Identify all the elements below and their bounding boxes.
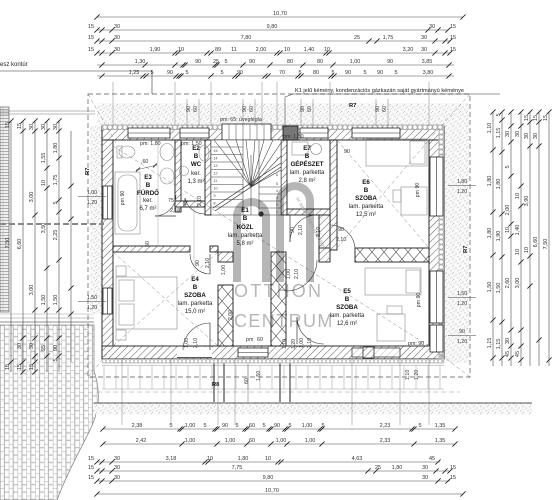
svg-text:B: B xyxy=(364,187,369,194)
dashed diagonals E4 xyxy=(113,252,218,346)
svg-text:10: 10 xyxy=(284,47,290,53)
insulation circle band bottom wall xyxy=(102,359,444,364)
svg-text:11: 11 xyxy=(214,179,218,183)
svg-text:B: B xyxy=(193,284,198,291)
dimension chain y=429 xyxy=(100,423,457,431)
svg-text:1,50: 1,50 xyxy=(87,295,97,301)
svg-text:6,60: 6,60 xyxy=(17,239,23,250)
interior extension lines xyxy=(157,140,159,246)
svg-text:1,20: 1,20 xyxy=(87,305,97,311)
bathtub xyxy=(115,172,140,234)
svg-text:1,00: 1,00 xyxy=(299,338,305,348)
svg-text:3,20: 3,20 xyxy=(403,47,414,53)
svg-text:1,80: 1,80 xyxy=(53,143,59,154)
svg-text:5: 5 xyxy=(394,70,397,76)
svg-text:E1: E1 xyxy=(241,207,249,214)
wall gepeszet bottom xyxy=(287,209,337,215)
svg-text:1,20: 1,20 xyxy=(414,370,420,380)
svg-text:1,15: 1,15 xyxy=(487,338,493,349)
room label KÖZL xyxy=(228,207,263,247)
svg-text:12,6 m²: 12,6 m² xyxy=(337,321,357,327)
svg-text:1,80: 1,80 xyxy=(487,176,493,187)
svg-text:1,40: 1,40 xyxy=(515,225,521,236)
svg-text:2,42: 2,42 xyxy=(136,438,147,444)
svg-text:15: 15 xyxy=(88,24,94,30)
svg-text:90: 90 xyxy=(274,423,280,429)
bed E5 xyxy=(365,268,421,295)
svg-text:75: 75 xyxy=(168,198,174,204)
svg-text:90: 90 xyxy=(459,329,465,335)
svg-text:15: 15 xyxy=(533,115,539,121)
svg-text:7: 7 xyxy=(276,157,278,161)
svg-text:90: 90 xyxy=(344,149,350,155)
svg-text:30: 30 xyxy=(505,338,511,344)
svg-text:2,38: 2,38 xyxy=(132,423,143,429)
dimension chain x=530 xyxy=(524,109,532,366)
top-left small lines xyxy=(0,110,95,112)
svg-text:9: 9 xyxy=(214,194,216,198)
svg-text:90: 90 xyxy=(338,227,344,233)
wall kozl/E4 right xyxy=(210,246,218,252)
svg-text:30: 30 xyxy=(114,475,120,481)
room label SZOBA xyxy=(330,288,365,327)
dimension chain x=502 xyxy=(496,109,504,366)
svg-text:2,10: 2,10 xyxy=(316,227,322,237)
window top E6 xyxy=(352,128,400,138)
svg-text:10: 10 xyxy=(41,180,47,186)
svg-text:4: 4 xyxy=(276,189,278,193)
door E5 top xyxy=(286,260,317,291)
svg-text:5: 5 xyxy=(505,165,511,168)
svg-text:60: 60 xyxy=(249,106,255,112)
svg-text:1,00: 1,00 xyxy=(221,265,227,275)
svg-text:OTTHON: OTTHON xyxy=(234,281,323,301)
svg-text:15: 15 xyxy=(450,24,456,30)
svg-text:1,50: 1,50 xyxy=(457,291,467,297)
dimension chain y=462 xyxy=(88,456,441,464)
dashed lower line xyxy=(97,391,460,393)
svg-text:15,0 m²: 15,0 m² xyxy=(185,309,205,315)
dimension chain x=23 xyxy=(17,118,25,374)
svg-text:1,20: 1,20 xyxy=(87,200,97,206)
svg-text:1,00: 1,00 xyxy=(87,190,97,196)
svg-text:4,63: 4,63 xyxy=(352,456,363,462)
wall stair/gepeszet xyxy=(281,140,287,215)
desk E6 xyxy=(401,187,427,215)
svg-text:15: 15 xyxy=(543,115,549,121)
svg-text:6,7 m²: 6,7 m² xyxy=(139,206,156,212)
svg-text:2,23: 2,23 xyxy=(380,423,391,429)
svg-text:5,8 m²: 5,8 m² xyxy=(236,241,253,247)
svg-text:10,70: 10,70 xyxy=(265,488,279,494)
svg-text:1,00: 1,00 xyxy=(184,338,190,348)
svg-text:1,75: 1,75 xyxy=(383,35,394,41)
svg-text:5: 5 xyxy=(418,423,421,429)
svg-text:1,40: 1,40 xyxy=(304,47,315,53)
door E6 xyxy=(330,225,355,250)
svg-text:2,8 m²: 2,8 m² xyxy=(298,178,315,184)
door E4 bottom xyxy=(183,323,210,350)
svg-text:14: 14 xyxy=(214,157,218,161)
dimension chain x=71 xyxy=(68,131,73,362)
svg-text:12: 12 xyxy=(214,172,218,176)
svg-text:1,80: 1,80 xyxy=(238,456,249,462)
svg-text:pm: 1,80: pm: 1,80 xyxy=(140,141,161,147)
dimension chain x=59 xyxy=(53,118,61,372)
svg-text:2,33: 2,33 xyxy=(380,438,391,444)
svg-text:B: B xyxy=(345,296,350,303)
hip roof corner diagonals xyxy=(88,94,116,143)
svg-text:15: 15 xyxy=(450,475,456,481)
svg-text:1,10: 1,10 xyxy=(487,123,493,134)
window right E5 small xyxy=(430,325,443,352)
svg-text:90: 90 xyxy=(290,227,296,233)
svg-text:5: 5 xyxy=(53,201,59,204)
svg-text:FÜRDŐ: FÜRDŐ xyxy=(137,190,159,197)
svg-text:1,90: 1,90 xyxy=(150,47,161,53)
outer wall bottom xyxy=(102,346,444,359)
bed E6 xyxy=(366,139,427,166)
svg-text:15: 15 xyxy=(88,456,94,462)
svg-text:B: B xyxy=(243,215,248,222)
wall corridor/E5 xyxy=(271,252,286,346)
svg-text:ker.: ker. xyxy=(143,198,153,204)
wall E4 corridoor top stub xyxy=(218,252,233,262)
toilet furdo xyxy=(119,146,135,158)
svg-text:60: 60 xyxy=(382,106,388,112)
svg-text:30: 30 xyxy=(41,124,47,130)
svg-text:5: 5 xyxy=(53,358,59,361)
svg-text:2,60: 2,60 xyxy=(505,278,511,289)
svg-text:R7: R7 xyxy=(463,246,469,253)
svg-text:25: 25 xyxy=(375,465,381,471)
svg-text:75: 75 xyxy=(183,200,189,206)
svg-text:3,80: 3,80 xyxy=(423,70,434,76)
svg-text:CENTRUM: CENTRUM xyxy=(234,311,334,331)
svg-text:R7: R7 xyxy=(85,168,91,175)
dresser E5 xyxy=(377,314,405,341)
outer wall top xyxy=(102,126,444,140)
svg-text:2,00: 2,00 xyxy=(256,47,267,53)
svg-text:9,80: 9,80 xyxy=(263,475,274,481)
svg-text:2,10: 2,10 xyxy=(170,208,180,214)
watermark logo OC xyxy=(233,182,334,331)
svg-text:2,10: 2,10 xyxy=(307,338,313,348)
outer wall right xyxy=(429,140,444,359)
svg-text:30: 30 xyxy=(29,343,35,349)
svg-text:15: 15 xyxy=(88,475,94,481)
svg-text:80: 80 xyxy=(313,70,319,76)
svg-text:25: 25 xyxy=(354,35,360,41)
svg-text:5: 5 xyxy=(363,70,366,76)
dimension chain x=521 xyxy=(515,109,523,366)
svg-text:pm: pm xyxy=(246,337,254,343)
svg-text:7,75: 7,75 xyxy=(232,465,243,471)
svg-text:15: 15 xyxy=(450,465,456,471)
dimension chain x=35 xyxy=(29,118,37,374)
svg-text:3,90: 3,90 xyxy=(524,196,530,207)
svg-text:1,35: 1,35 xyxy=(435,423,446,429)
svg-text:5: 5 xyxy=(203,423,206,429)
svg-text:5: 5 xyxy=(224,59,227,65)
section line left xyxy=(0,223,104,225)
svg-text:30: 30 xyxy=(421,47,427,53)
dimension chain y=444 xyxy=(100,438,457,446)
svg-text:3,18: 3,18 xyxy=(166,456,177,462)
door E5 bottom-left xyxy=(297,317,324,344)
svg-text:25: 25 xyxy=(213,59,219,65)
svg-text:30: 30 xyxy=(524,133,530,139)
svg-text:80: 80 xyxy=(287,59,293,65)
svg-text:90: 90 xyxy=(195,260,201,266)
svg-text:1,75: 1,75 xyxy=(53,175,59,186)
svg-text:2,10: 2,10 xyxy=(193,338,199,348)
svg-text:ker.: ker. xyxy=(191,171,201,177)
dimension chain y=41 xyxy=(88,35,456,43)
svg-text:1,20: 1,20 xyxy=(457,301,467,307)
svg-text:lam. parketta: lam. parketta xyxy=(330,313,365,319)
svg-text:5: 5 xyxy=(288,423,291,429)
svg-text:5: 5 xyxy=(220,70,223,76)
room label WC xyxy=(187,145,204,185)
svg-text:5: 5 xyxy=(496,113,502,116)
svg-text:5: 5 xyxy=(331,70,334,76)
svg-text:3,00: 3,00 xyxy=(29,192,35,203)
svg-text:90: 90 xyxy=(377,70,383,76)
dimension chain x=549 xyxy=(543,109,551,366)
svg-text:3,00: 3,00 xyxy=(29,285,35,296)
svg-text:7,50: 7,50 xyxy=(543,239,549,250)
svg-text:10: 10 xyxy=(214,187,218,191)
outer wall left xyxy=(102,140,113,359)
dashed roof diagonal long xyxy=(113,146,429,346)
svg-text:30: 30 xyxy=(53,124,59,130)
window left E4 xyxy=(103,288,112,314)
dimension chain y=30 xyxy=(88,24,456,32)
chimney K1 xyxy=(283,126,298,140)
svg-text:10: 10 xyxy=(324,47,330,53)
svg-text:90: 90 xyxy=(195,59,201,65)
wall wc/stair xyxy=(205,140,211,215)
svg-text:2,00: 2,00 xyxy=(228,310,234,320)
dimension chain y=494 xyxy=(94,488,465,496)
svg-text:SZOBA: SZOBA xyxy=(336,304,358,311)
svg-text:E6: E6 xyxy=(362,179,370,186)
svg-text:lam. parketta: lam. parketta xyxy=(178,301,213,307)
svg-text:1,3 m²: 1,3 m² xyxy=(187,179,204,185)
svg-text:1,00: 1,00 xyxy=(350,59,361,65)
room label SZOBA xyxy=(178,276,213,315)
svg-text:5: 5 xyxy=(235,423,238,429)
svg-text:10: 10 xyxy=(515,193,521,199)
dimension chain y=17 xyxy=(94,11,465,19)
svg-text:1,15: 1,15 xyxy=(496,339,502,350)
svg-text:pm 90: pm 90 xyxy=(415,183,421,198)
svg-text:90: 90 xyxy=(387,59,393,65)
svg-text:15: 15 xyxy=(5,364,11,370)
svg-text:KÖZL: KÖZL xyxy=(237,224,254,231)
door gepeszet xyxy=(290,215,317,242)
svg-text:15: 15 xyxy=(450,35,456,41)
svg-text:60: 60 xyxy=(257,337,263,343)
svg-text:90: 90 xyxy=(53,345,59,351)
svg-text:pm: 1,50: pm: 1,50 xyxy=(181,141,202,147)
ground speckle band xyxy=(94,404,532,415)
svg-text:lam. parketta: lam. parketta xyxy=(228,233,263,239)
washbasin furdo 1 xyxy=(160,144,174,161)
svg-text:10: 10 xyxy=(207,456,213,462)
svg-text:2,10: 2,10 xyxy=(205,258,211,268)
svg-text:lam. parketta: lam. parketta xyxy=(290,170,325,176)
svg-text:8: 8 xyxy=(214,202,216,206)
svg-text:1,20: 1,20 xyxy=(291,339,297,349)
dimension chain x=11 xyxy=(5,118,13,372)
svg-text:90: 90 xyxy=(345,70,351,76)
door opening E4 bottom xyxy=(177,347,212,358)
svg-text:15: 15 xyxy=(29,364,35,370)
svg-text:5: 5 xyxy=(276,182,278,186)
svg-text:B: B xyxy=(194,153,199,160)
svg-text:30: 30 xyxy=(17,343,23,349)
svg-text:1,50: 1,50 xyxy=(53,295,59,306)
svg-text:15: 15 xyxy=(17,123,23,129)
wall kozl east xyxy=(319,215,330,250)
svg-text:1,80: 1,80 xyxy=(457,179,467,185)
svg-text:E4: E4 xyxy=(191,276,199,283)
svg-text:10,70: 10,70 xyxy=(273,11,287,17)
svg-text:5: 5 xyxy=(185,70,188,76)
svg-text:3,00: 3,00 xyxy=(515,278,521,289)
svg-text:2,00: 2,00 xyxy=(505,205,511,216)
room label SZOBA xyxy=(349,179,384,218)
svg-text:30: 30 xyxy=(114,35,120,41)
svg-text:5: 5 xyxy=(321,423,324,429)
svg-text:pm: 90: pm: 90 xyxy=(408,341,424,347)
svg-text:15: 15 xyxy=(524,115,530,121)
svg-text:15: 15 xyxy=(88,47,94,53)
svg-text:15: 15 xyxy=(450,47,456,53)
svg-text:B: B xyxy=(146,182,151,189)
window right E5 xyxy=(430,271,443,323)
washbasin wc xyxy=(180,167,189,176)
svg-text:15: 15 xyxy=(17,364,23,370)
svg-text:45: 45 xyxy=(505,351,511,357)
svg-text:2,10: 2,10 xyxy=(298,225,304,235)
svg-text:60: 60 xyxy=(249,438,255,444)
dimension chain y=53 xyxy=(88,47,456,55)
svg-text:1,00: 1,00 xyxy=(185,438,196,444)
svg-text:60: 60 xyxy=(249,423,255,429)
svg-text:E5: E5 xyxy=(343,288,351,295)
svg-text:E3: E3 xyxy=(144,174,152,181)
ground line xyxy=(94,402,532,404)
svg-text:R7: R7 xyxy=(349,103,356,109)
svg-text:30: 30 xyxy=(505,131,511,137)
extension lines below wall xyxy=(121,359,123,425)
svg-text:10: 10 xyxy=(505,227,511,233)
svg-text:10: 10 xyxy=(515,249,521,255)
window top bathroom xyxy=(128,128,170,138)
toilet wc xyxy=(199,145,209,161)
svg-text:7,80: 7,80 xyxy=(241,35,252,41)
svg-text:GÉPÉSZET: GÉPÉSZET xyxy=(290,160,323,168)
stipple band left xyxy=(90,126,102,314)
room label GÉPÉSZET xyxy=(290,145,325,184)
svg-text:1,30: 1,30 xyxy=(135,59,146,65)
svg-text:,60: ,60 xyxy=(141,159,148,165)
wall E6/E5 left stub xyxy=(319,248,330,262)
svg-text:1,50: 1,50 xyxy=(41,295,47,306)
door E4 top xyxy=(190,254,210,274)
roof contour dashed xyxy=(88,94,470,377)
wall bathroom/wc xyxy=(175,140,181,212)
stipple band top xyxy=(97,103,449,126)
svg-text:1,20: 1,20 xyxy=(457,339,467,345)
wall E6/E5 xyxy=(355,248,429,262)
svg-text:3,85: 3,85 xyxy=(422,59,433,65)
svg-text:90: 90 xyxy=(222,423,228,429)
svg-text:89: 89 xyxy=(215,47,221,53)
stair column xyxy=(258,211,263,216)
stair tread numbers xyxy=(214,149,279,214)
svg-text:50: 50 xyxy=(145,241,151,247)
svg-text:30: 30 xyxy=(429,24,435,30)
dim 60 bath xyxy=(136,165,157,170)
svg-text:1,20: 1,20 xyxy=(457,189,467,195)
window top gepeszet xyxy=(300,128,328,138)
dimension chain y=76 xyxy=(97,70,454,78)
svg-text:R8: R8 xyxy=(212,382,220,388)
svg-text:30: 30 xyxy=(29,124,35,130)
svg-text:pm 90: pm 90 xyxy=(120,191,126,206)
dimension chain x=511 xyxy=(505,109,513,366)
stair cut line xyxy=(213,163,281,208)
nightstand E4 xyxy=(116,266,126,276)
svg-text:1,15: 1,15 xyxy=(496,128,502,139)
svg-text:1,55: 1,55 xyxy=(41,153,47,164)
svg-text:15: 15 xyxy=(214,149,218,153)
window left bathroom xyxy=(103,186,112,219)
washbasin furdo 2 xyxy=(160,168,174,184)
window top wc xyxy=(180,128,209,138)
svg-text:10: 10 xyxy=(178,47,184,53)
svg-text:K1 jelű kémény, kondenzációs g: K1 jelű kémény, kondenzációs gázkazán sa… xyxy=(295,88,464,94)
svg-text:1,50: 1,50 xyxy=(487,282,493,293)
svg-text:esz kontúr: esz kontúr xyxy=(0,62,28,68)
dimension chain y=481 xyxy=(88,475,456,483)
terrace elevation strip below building xyxy=(102,361,444,389)
svg-text:30: 30 xyxy=(114,24,120,30)
svg-text:12,5 m²: 12,5 m² xyxy=(356,212,376,218)
svg-text:30: 30 xyxy=(114,465,120,471)
door bottom corridor xyxy=(238,348,268,357)
svg-text:30: 30 xyxy=(422,465,428,471)
svg-text:5: 5 xyxy=(150,70,153,76)
dimension chain x=47 xyxy=(41,118,49,372)
svg-text:1,50: 1,50 xyxy=(256,371,262,381)
svg-text:45: 45 xyxy=(429,456,435,462)
svg-text:70: 70 xyxy=(279,70,285,76)
terrain surface lines left xyxy=(0,313,94,315)
svg-text:1,00: 1,00 xyxy=(305,438,316,444)
svg-text:10: 10 xyxy=(265,456,271,462)
window right E6 xyxy=(430,157,443,216)
dimension chain x=493 xyxy=(487,109,495,366)
svg-text:1,10: 1,10 xyxy=(282,339,288,349)
svg-text:lam. parketta: lam. parketta xyxy=(349,204,384,210)
svg-text:30: 30 xyxy=(533,133,539,139)
svg-text:45: 45 xyxy=(515,351,521,357)
